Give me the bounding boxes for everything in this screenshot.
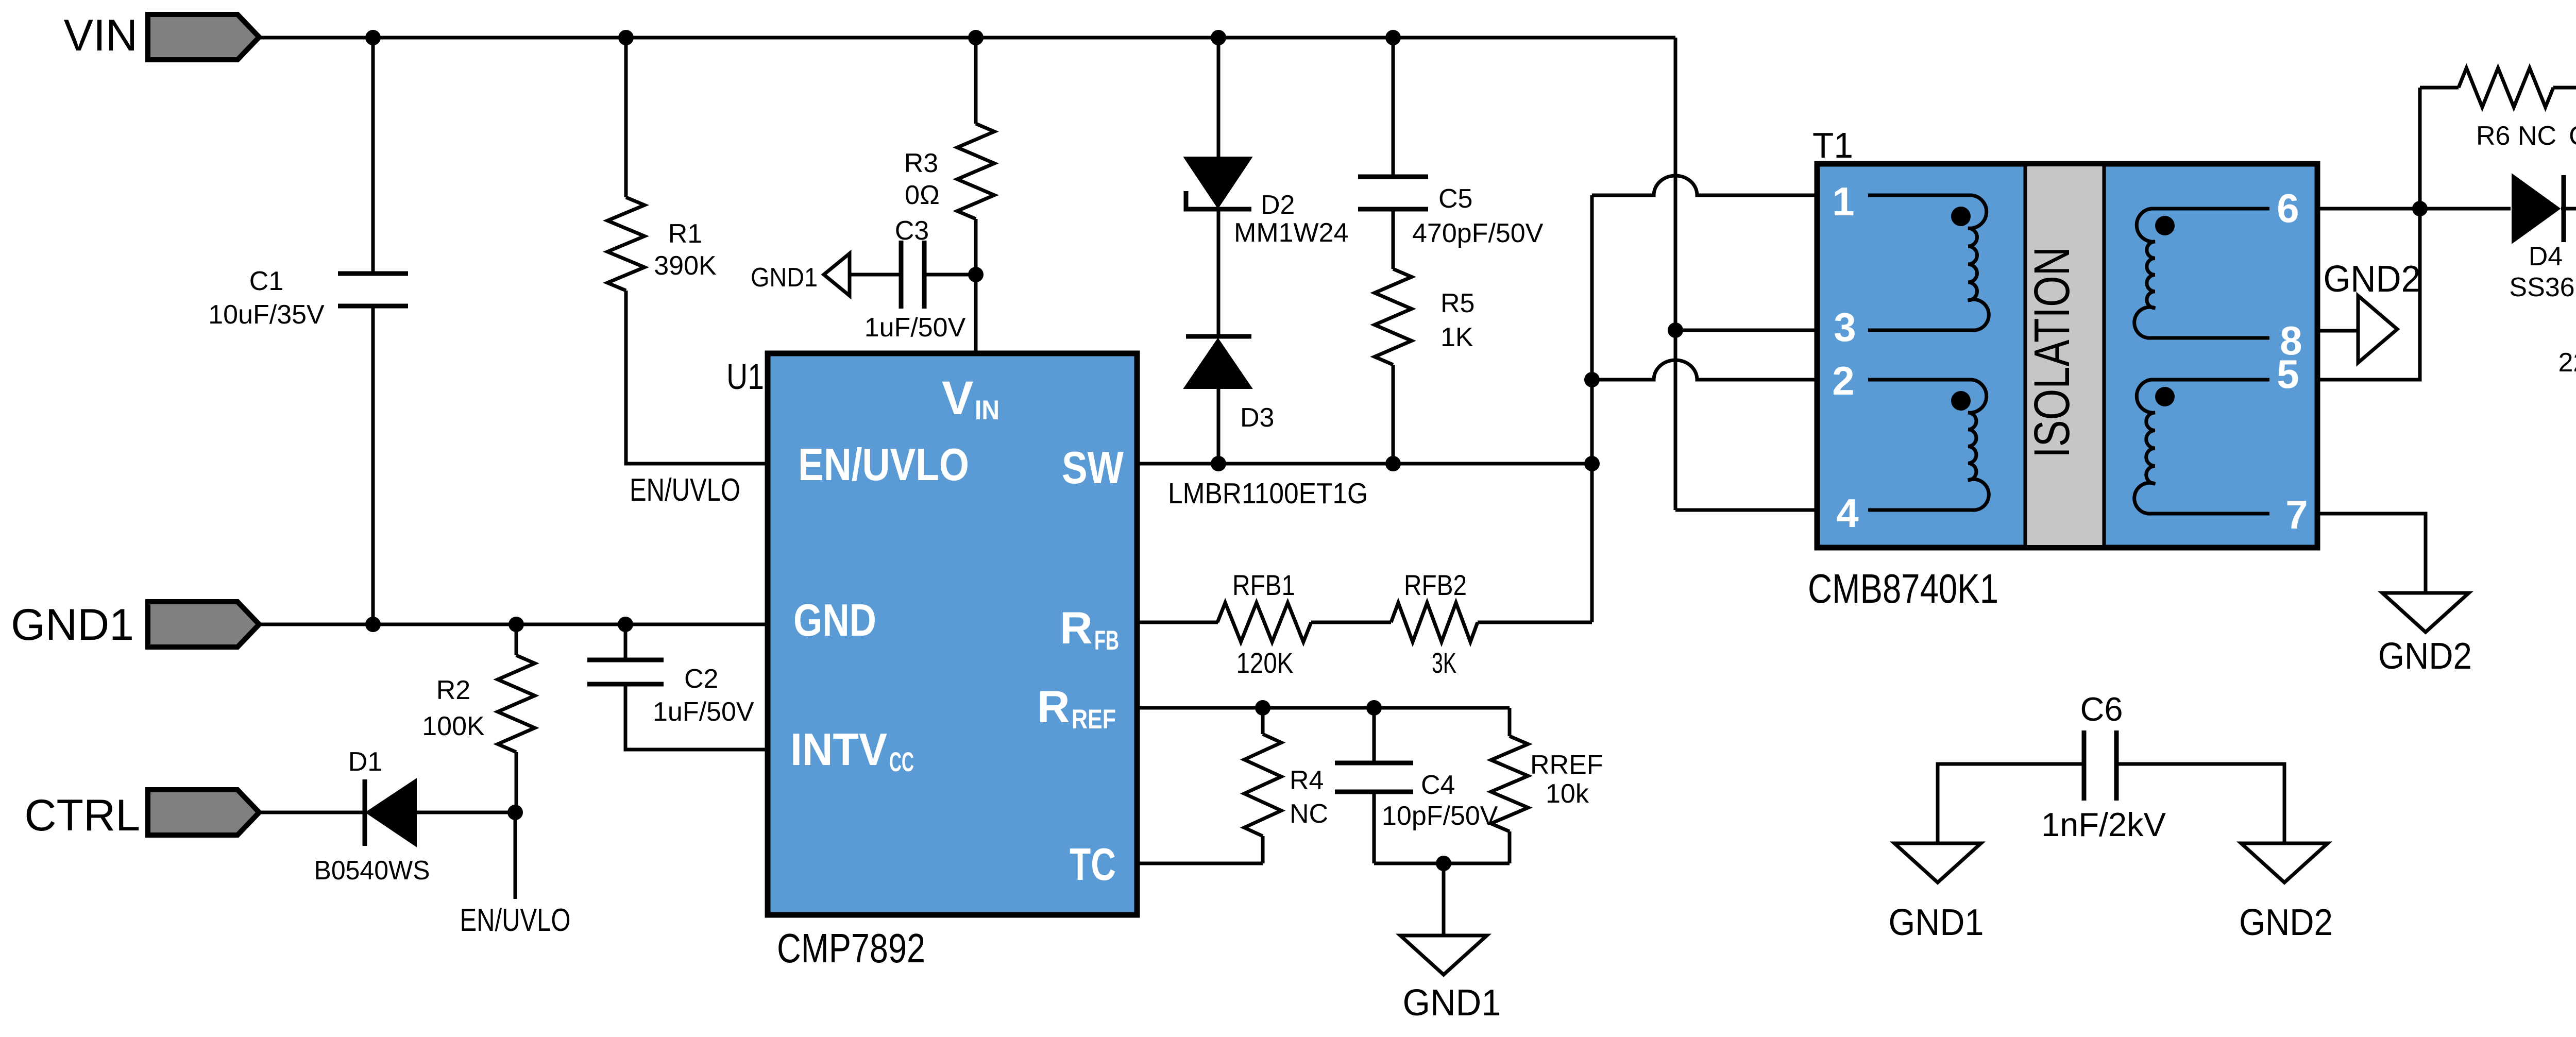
svg-text:GND2: GND2 (2239, 902, 2333, 943)
svg-text:10uF/35V: 10uF/35V (208, 300, 325, 330)
isolation strip (2025, 166, 2104, 545)
junction SW-SWrail (1584, 456, 1600, 471)
svg-text:5: 5 (2277, 351, 2299, 397)
wire C2 to INTVCC (625, 684, 768, 750)
svg-text:ISOLATION: ISOLATION (2024, 247, 2080, 458)
capacitor C1 (338, 271, 408, 276)
svg-text:T1: T1 (1812, 125, 1853, 165)
junction VIN-R3 (968, 30, 984, 45)
svg-text:C6: C6 (2080, 690, 2123, 728)
wire GND1 rail (259, 623, 768, 626)
wire RFB stub (1137, 621, 1218, 624)
wire C5-R5 (1392, 209, 1395, 269)
svg-text:RFB2: RFB2 (1404, 569, 1467, 601)
svg-text:GND2: GND2 (2378, 636, 2472, 677)
wire RREF top (1508, 708, 1512, 736)
wire D2 top (1217, 38, 1221, 158)
svg-text:1uF/50V: 1uF/50V (653, 697, 754, 727)
wire C2 top (624, 624, 628, 660)
wire RREF bottom (1508, 831, 1512, 863)
wire R5 bottom (1392, 365, 1395, 464)
winding 5-7 (2134, 380, 2269, 514)
svg-text:1: 1 (1832, 179, 1854, 224)
wire C3 right (924, 273, 976, 277)
svg-text:C1: C1 (249, 266, 283, 296)
wire RREF rail (1137, 706, 1510, 710)
wire R4 bottom (1261, 836, 1265, 863)
wire VIN top rail (259, 36, 1675, 40)
resistor R5 (1375, 269, 1412, 365)
svg-text:1uF/50V: 1uF/50V (865, 313, 966, 343)
diode D1 bar (363, 779, 367, 846)
wire pin5 (2317, 209, 2420, 380)
junction VIN-R1 (618, 30, 634, 45)
svg-text:LMBR1100ET1G: LMBR1100ET1G (1168, 477, 1368, 510)
svg-text:FB: FB (1094, 625, 1119, 656)
wire RFB2 to SW net (1478, 621, 1592, 624)
capacitor C3 (899, 241, 904, 309)
junction GND1 stem (1436, 856, 1451, 871)
diode D3 bar (1186, 334, 1251, 339)
svg-text:R1: R1 (668, 219, 702, 249)
wire RFB1-RFB2 (1311, 621, 1391, 624)
svg-text:REF: REF (1072, 704, 1116, 735)
ground GND1 at C6 (1894, 843, 1981, 882)
junction SW-pin2 (1584, 372, 1600, 387)
wire C6 right (2116, 764, 2284, 843)
svg-text:SS36: SS36 (2509, 273, 2574, 302)
wire pin4 (1675, 508, 1817, 512)
junction R3-C3 (968, 267, 984, 282)
diode D2 body (1185, 158, 1251, 207)
junction VIN-D2 (1211, 30, 1226, 45)
svg-text:1K: 1K (1440, 322, 1473, 352)
junction RREF-R4 (1255, 700, 1270, 716)
resistor RFB2 (1391, 603, 1478, 642)
svg-text:GND1: GND1 (1889, 902, 1984, 943)
diode D4 body (2513, 175, 2559, 242)
resistor R1 (607, 197, 645, 291)
wire D2-D3 (1217, 209, 1221, 336)
wire pin8 stub (2317, 329, 2358, 333)
ground GND2 at C6 (2241, 843, 2328, 882)
svg-text:D1: D1 (348, 747, 382, 777)
ground GND1 under RREF (1400, 936, 1487, 975)
svg-text:D2: D2 (1261, 190, 1295, 220)
wire R6C7 top left (2420, 86, 2459, 90)
svg-text:C5: C5 (1438, 184, 1472, 214)
svg-text:MM1W24: MM1W24 (1234, 218, 1348, 248)
wire CTRL to D1 (259, 811, 367, 814)
resistor R2 (498, 655, 535, 752)
svg-text:CC: CC (889, 747, 914, 777)
svg-text:IN: IN (975, 395, 999, 426)
winding 1-3 (1868, 195, 1989, 330)
svg-text:CTRL: CTRL (24, 791, 140, 840)
svg-text:SW: SW (1062, 442, 1124, 493)
wire R1 to EN/UVLO (626, 291, 768, 464)
junction VIN-pin3 (1668, 322, 1683, 338)
svg-text:NC: NC (1290, 799, 1328, 829)
wire D3 bottom (1217, 388, 1221, 464)
winding dot 6 (2155, 216, 2175, 235)
capacitor C4 (1335, 761, 1413, 766)
svg-text:2: 2 (1832, 358, 1854, 403)
svg-text:CMP7892: CMP7892 (777, 925, 925, 971)
svg-text:GND1: GND1 (1403, 982, 1501, 1024)
svg-text:R6 NC: R6 NC (2476, 121, 2556, 151)
svg-text:R5: R5 (1440, 288, 1475, 318)
svg-text:V: V (942, 372, 973, 424)
svg-text:C7 NC: C7 NC (2569, 121, 2576, 151)
winding dot 5 (2155, 387, 2175, 406)
svg-text:3K: 3K (1432, 647, 1456, 679)
wire pin6 rail (2317, 207, 2511, 211)
resistor R4 (1244, 734, 1281, 836)
resistor R3 (957, 124, 994, 219)
svg-text:D4: D4 (2529, 242, 2563, 271)
wire SW vertical (1590, 195, 1594, 622)
svg-text:R: R (1037, 681, 1070, 732)
junction SW-R5 (1385, 456, 1401, 471)
wire R2 top (515, 624, 518, 655)
svg-text:GND1: GND1 (11, 600, 134, 650)
svg-text:C4: C4 (1421, 770, 1455, 800)
junction GND1-R2 (509, 617, 524, 632)
svg-text:120K: 120K (1236, 647, 1294, 679)
svg-text:0Ω: 0Ω (905, 180, 940, 210)
svg-text:B0540WS: B0540WS (314, 856, 430, 886)
ground GND2 under pin7 (2382, 593, 2469, 632)
connector GND1 (148, 602, 259, 647)
winding dot 1 (1951, 207, 1971, 226)
svg-text:7: 7 (2285, 492, 2308, 537)
svg-text:C3: C3 (895, 216, 929, 246)
junction pin6-loop (2412, 201, 2428, 216)
wire R3 top (974, 38, 978, 124)
svg-text:100K: 100K (422, 711, 485, 741)
svg-text:1nF/2kV: 1nF/2kV (2041, 806, 2166, 843)
wire VOUT rail (2561, 207, 2576, 211)
svg-text:CMB8740K1: CMB8740K1 (1808, 566, 1998, 611)
wire EN/UVLO stub (514, 812, 517, 899)
svg-text:R4: R4 (1290, 766, 1324, 795)
wire R2 bottom (515, 752, 518, 812)
wire pin7 (2317, 514, 2426, 593)
svg-text:470pF/50V: 470pF/50V (1412, 218, 1544, 248)
diode D3 body (1185, 339, 1251, 388)
wire R3 to VIN pin (974, 219, 978, 353)
svg-text:390K: 390K (654, 251, 717, 281)
svg-text:C2: C2 (684, 664, 718, 694)
junction VIN-C1 (365, 30, 381, 45)
wire C6 left (1938, 764, 2084, 843)
wire pin2 with hop (1592, 360, 1817, 380)
svg-text:GND1: GND1 (751, 263, 818, 293)
wire TC rail (1137, 862, 1263, 865)
capacitor C5 (1358, 175, 1428, 179)
svg-text:GND2: GND2 (2324, 259, 2421, 300)
capacitor C6 (2082, 730, 2087, 801)
diode D1 body (367, 780, 416, 845)
svg-text:U1: U1 (726, 356, 764, 397)
diode D2 zener bar (1186, 191, 1251, 209)
svg-text:EN/UVLO: EN/UVLO (460, 903, 571, 938)
winding 6-8 (2134, 209, 2269, 338)
junction SW-D3 (1211, 456, 1226, 471)
svg-text:RREF: RREF (1530, 750, 1603, 780)
wire pin1 with hop (1592, 176, 1817, 195)
junction VIN-C5 (1385, 30, 1401, 45)
wire pin3 (1675, 329, 1817, 332)
svg-text:R2: R2 (436, 675, 470, 705)
winding dot 2 (1951, 391, 1971, 411)
resistor R6 (2459, 68, 2553, 107)
wire C5 top (1392, 38, 1395, 177)
svg-text:INTV: INTV (790, 724, 887, 775)
ground GND1 at C3 (824, 253, 850, 296)
wire R6-C7 (2553, 86, 2576, 90)
ground GND2 at pin8 (2358, 296, 2397, 363)
svg-text:6: 6 (2277, 185, 2299, 231)
svg-text:3: 3 (1834, 304, 1856, 350)
wire D1 to junction (416, 811, 515, 814)
wire R4 top (1261, 708, 1265, 734)
diode D4 bar (2562, 175, 2566, 242)
svg-text:EN/UVLO: EN/UVLO (798, 439, 969, 490)
wire C4 top (1372, 708, 1376, 763)
svg-text:10k: 10k (1546, 779, 1589, 809)
wire GND1 stem (1442, 863, 1446, 936)
winding 2-4 (1868, 380, 1989, 510)
svg-text:GND: GND (793, 594, 876, 645)
svg-text:R3: R3 (904, 148, 938, 178)
svg-text:R: R (1060, 602, 1093, 653)
junction RREF-C4 (1366, 700, 1382, 716)
wire C4 bottom (1372, 792, 1376, 863)
junction GND1-C1 (365, 617, 381, 632)
svg-text:4: 4 (1836, 490, 1858, 536)
resistor RFB1 (1217, 603, 1311, 642)
connector CTRL (148, 790, 259, 835)
svg-text:10pF/50V: 10pF/50V (1382, 801, 1498, 831)
wire SW rail (1137, 462, 1592, 466)
wire C3 left (849, 273, 901, 277)
wire R6C7 loop left (2418, 88, 2422, 209)
connector VIN (148, 14, 259, 60)
svg-text:EN/UVLO: EN/UVLO (630, 472, 740, 508)
svg-text:D3: D3 (1240, 403, 1274, 433)
wire VIN vertical (1674, 38, 1677, 510)
IC U1 body (768, 353, 1137, 915)
svg-text:TC: TC (1070, 839, 1116, 890)
transformer T1 body (1817, 164, 2317, 548)
svg-text:22uF/25V: 22uF/25V (2558, 348, 2576, 378)
wire R1 top (624, 38, 628, 197)
junction EN/UVLO node (507, 805, 523, 820)
wire C1 bottom (371, 306, 375, 624)
wire C1 top (371, 38, 375, 274)
capacitor C2 (587, 658, 664, 662)
svg-text:VIN: VIN (64, 11, 138, 60)
resistor RREF (1491, 736, 1528, 831)
wire GND1 bottom rail (1374, 862, 1510, 865)
svg-text:RFB1: RFB1 (1232, 569, 1295, 601)
junction GND1-C2 (618, 617, 633, 632)
